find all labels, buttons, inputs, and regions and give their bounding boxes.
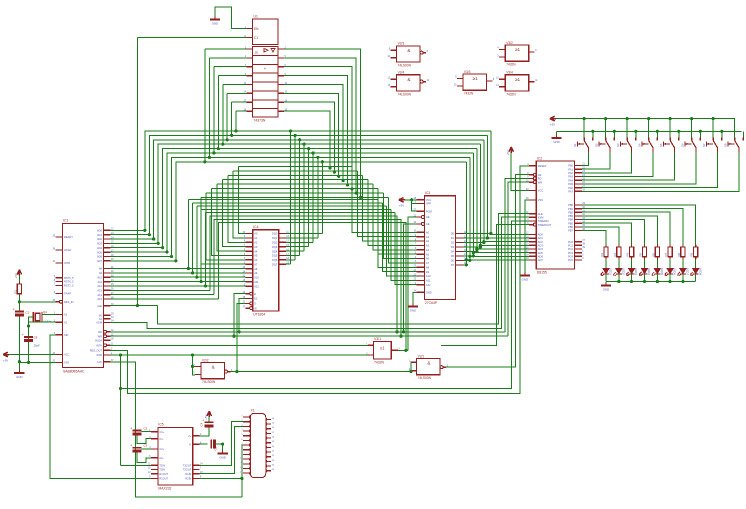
svg-text:A12: A12 [97,284,102,288]
svg-text:+: + [130,444,132,448]
svg-text:AD0: AD0 [538,233,544,237]
svg-text:V3/4: V3/4 [506,71,513,75]
svg-text:VSS: VSS [64,361,69,365]
svg-text:C2+: C2+ [159,447,164,451]
svg-text:HLDA: HLDA [95,338,102,342]
svg-text:LED7: LED7 [686,268,690,275]
svg-text:GND: GND [603,288,609,292]
svg-text:&: & [407,77,410,82]
svg-text:AD4: AD4 [97,246,103,250]
svg-text:A9: A9 [254,271,258,275]
svg-text:PB4: PB4 [568,218,573,222]
svg-text:A11: A11 [98,280,103,284]
svg-text:PC0: PC0 [568,240,574,244]
svg-text:S5: S5 [659,143,663,147]
svg-text:TIMEROUT: TIMEROUT [538,223,552,227]
svg-text:TRAP: TRAP [64,292,71,296]
svg-text:READY: READY [64,235,73,239]
svg-text:R9: R9 [690,252,694,256]
svg-text:V-: V- [189,442,192,446]
svg-text:+: + [130,427,132,431]
svg-text:S7: S7 [702,143,706,147]
svg-text:RES_OUT: RES_OUT [90,349,103,353]
svg-text:C4: C4 [200,422,204,426]
svg-text:A6: A6 [426,257,430,261]
svg-text:A14: A14 [97,293,102,297]
svg-text:INTA: INTA [96,344,102,348]
svg-text:C5: C5 [214,446,218,450]
svg-text:V2/4: V2/4 [398,71,405,75]
svg-text:A0: A0 [426,231,430,235]
svg-text:SID: SID [64,333,68,337]
svg-text:Q1: Q1 [43,310,47,314]
svg-text:≥1: ≥1 [515,47,521,52]
svg-text:74LS00N: 74LS00N [202,380,216,384]
svg-text:X2: X2 [64,320,68,324]
svg-text:7432N: 7432N [464,92,474,96]
svg-text:TIMERIN: TIMERIN [538,219,549,223]
svg-text:PB6: PB6 [568,225,573,229]
svg-text:HOLD: HOLD [64,248,71,252]
svg-text:RD: RD [98,330,102,334]
svg-text:A1: A1 [426,235,430,239]
svg-text:7432N: 7432N [506,92,516,96]
svg-text:AD5: AD5 [538,251,544,255]
svg-text:&: & [427,361,430,366]
svg-text:IC2: IC2 [537,157,542,161]
svg-text:PB2: PB2 [568,210,573,214]
svg-text:A4: A4 [426,248,430,252]
svg-text:+5V: +5V [550,122,555,126]
svg-text:A3: A3 [254,245,258,249]
svg-text:DQ4: DQ4 [272,249,278,253]
svg-text:AD1: AD1 [538,236,544,240]
svg-text:74LS00N: 74LS00N [398,92,412,96]
svg-text:PA5: PA5 [568,182,573,186]
svg-text:A11: A11 [254,280,259,284]
svg-text:R7: R7 [664,252,668,256]
svg-text:LED2: LED2 [621,268,625,275]
svg-text:20pF: 20pF [34,344,41,348]
svg-text:V2/3: V2/3 [398,42,405,46]
svg-text:LED4: LED4 [647,268,651,275]
svg-text:C2: C2 [144,427,148,431]
svg-text:AD2: AD2 [538,240,544,244]
svg-text:DQ5: DQ5 [272,254,278,258]
svg-text:&: & [407,48,410,53]
svg-text:≥1: ≥1 [473,76,479,81]
svg-text:+5V: +5V [506,150,510,155]
svg-text:LED5: LED5 [660,268,664,275]
svg-text:LED3: LED3 [634,268,638,275]
svg-text:A7: A7 [254,262,258,266]
svg-text:X1: X1 [64,313,68,317]
svg-text:DQ3: DQ3 [272,245,278,249]
svg-text:+: + [12,308,14,312]
svg-text:C8: C8 [34,336,38,340]
svg-text:AD1: AD1 [97,233,103,237]
svg-text:S3: S3 [616,143,620,147]
svg-text:PC5: PC5 [568,258,574,262]
svg-text:A8: A8 [426,266,430,270]
svg-text:R2IN: R2IN [185,477,191,481]
svg-text:PA7: PA7 [568,190,573,194]
svg-text:RST7_5: RST7_5 [64,284,74,288]
svg-text:+: + [22,333,24,337]
svg-text:+5V: +5V [3,358,8,362]
svg-text:R3: R3 [613,252,617,256]
svg-text:IC4: IC4 [253,225,258,229]
svg-text:A1: A1 [254,236,258,240]
svg-text:S0: S0 [99,314,103,318]
svg-text:V2/1: V2/1 [418,354,425,358]
svg-text:R4: R4 [626,252,630,256]
svg-text:V3/1: V3/1 [374,337,381,341]
svg-text:C2-: C2- [159,456,163,460]
svg-text:A11: A11 [426,279,431,283]
svg-text:S1: S1 [573,143,577,147]
svg-text:74LS00N: 74LS00N [418,376,432,380]
svg-text:A5: A5 [254,254,258,258]
svg-text:G: G [254,302,256,306]
svg-text:SOD: SOD [96,353,102,357]
svg-text:PB5: PB5 [568,221,573,225]
svg-text:PA2: PA2 [568,171,573,175]
svg-text:R6: R6 [651,252,655,256]
svg-text:GND: GND [410,309,416,313]
svg-text:PA3: PA3 [568,175,573,179]
svg-text:GND: GND [426,291,432,295]
svg-text:D7: D7 [451,263,455,267]
svg-text:CE: CE [538,173,542,177]
svg-text:LED1: LED1 [609,268,613,275]
svg-text:CE: CE [426,222,430,226]
svg-text:7432N: 7432N [374,361,385,365]
svg-text:A10: A10 [426,274,431,278]
svg-text:A13: A13 [97,289,102,293]
svg-text:A12: A12 [254,284,259,288]
svg-text:AD4: AD4 [538,247,544,251]
svg-text:X1: X1 [251,409,255,413]
svg-text:74373N: 74373N [254,119,266,123]
svg-text:VCC: VCC [64,353,70,357]
svg-text:A6: A6 [254,258,258,262]
svg-text:RST5_5: RST5_5 [64,276,74,280]
svg-text:PB7: PB7 [568,229,573,233]
svg-text:D0: D0 [451,232,455,236]
svg-text:PB1: PB1 [568,207,573,211]
svg-text:D3: D3 [451,245,455,249]
svg-text:DQ0: DQ0 [272,232,278,236]
svg-text:WR: WR [538,180,542,184]
svg-text:R2OUT: R2OUT [159,477,168,481]
svg-text:AD3: AD3 [538,244,544,248]
svg-text:A9: A9 [426,270,430,274]
svg-text:CLK: CLK [97,360,102,364]
svg-text:V+: V+ [188,434,192,438]
svg-text:VSS: VSS [538,198,543,202]
svg-text:GND: GND [219,456,225,460]
svg-text:C1: C1 [254,36,258,40]
svg-text:LED6: LED6 [673,268,677,275]
svg-text:+5V: +5V [204,415,208,420]
svg-text:DQ1: DQ1 [272,236,278,240]
svg-text:GND: GND [553,140,559,144]
svg-text:A12: A12 [426,283,431,287]
svg-text:T1OUT: T1OUT [183,464,192,468]
svg-text:R5: R5 [639,252,643,256]
svg-text:E2: E2 [254,297,258,301]
svg-text:VCC: VCC [426,198,432,202]
svg-text:+5V: +5V [399,204,404,208]
svg-text:D6: D6 [451,259,455,263]
svg-text:LED8: LED8 [698,268,702,275]
svg-text:DQ2: DQ2 [272,241,278,245]
svg-text:ALE: ALE [97,304,102,308]
svg-text:A5: A5 [426,252,430,256]
svg-text:T2IN: T2IN [159,468,165,472]
svg-text:A15: A15 [97,297,102,301]
svg-text:RES_IN: RES_IN [64,300,73,304]
svg-text:GND: GND [212,22,218,26]
svg-text:R1IN: R1IN [185,472,191,476]
svg-text:SAB8085AHC: SAB8085AHC [63,369,85,373]
svg-text:C1+: C1+ [159,430,164,434]
svg-text:PA0: PA0 [568,164,573,168]
svg-text:MAX232: MAX232 [158,487,171,491]
svg-text:PB3: PB3 [568,214,573,218]
svg-text:PC3: PC3 [568,251,574,255]
svg-text:AD7: AD7 [538,258,544,262]
svg-text:INTR: INTR [64,261,70,265]
svg-text:27C64P: 27C64P [425,301,438,305]
svg-text:&: & [212,365,215,370]
svg-text:AD7: AD7 [97,259,103,263]
svg-text:AD6: AD6 [538,255,544,259]
svg-text:≥1: ≥1 [515,77,521,82]
svg-text:C1: C1 [26,311,30,315]
svg-text:PA6: PA6 [568,186,573,190]
svg-text:T1IN: T1IN [159,464,165,468]
svg-text:V2/2: V2/2 [202,358,209,362]
svg-text:R1OUT: R1OUT [159,472,168,476]
svg-text:C1-: C1- [159,437,163,441]
svg-text:74LS00N: 74LS00N [398,64,412,68]
svg-text:D5: D5 [451,254,455,258]
svg-text:OE: OE [426,215,430,219]
svg-text:RD: RD [538,177,542,181]
svg-text:PB0: PB0 [568,203,573,207]
svg-text:PGM: PGM [426,209,432,213]
svg-text:V3/2: V3/2 [506,41,513,45]
svg-text:R8: R8 [677,252,681,256]
svg-text:E: E [254,292,256,296]
svg-text:S8: S8 [724,143,728,147]
svg-text:VCC: VCC [538,189,544,193]
svg-text:R2: R2 [600,252,604,256]
svg-text:IO/M: IO/M [538,215,544,219]
svg-text:AD2: AD2 [97,237,103,241]
svg-text:V3/3: V3/3 [464,70,471,74]
svg-text:AD3: AD3 [97,242,103,246]
svg-text:GND: GND [16,375,22,379]
svg-text:PA1: PA1 [568,167,573,171]
svg-text:A2: A2 [426,239,430,243]
svg-text:PA4: PA4 [568,178,573,182]
svg-text:D8155: D8155 [537,270,547,274]
svg-text:+5V: +5V [14,273,18,278]
svg-text:A2: A2 [254,241,258,245]
svg-text:PC2: PC2 [568,247,574,251]
svg-text:+: + [202,418,204,422]
svg-text:DQ6: DQ6 [272,258,278,262]
svg-text:S6: S6 [681,143,685,147]
svg-text:IC1: IC1 [63,219,68,223]
svg-text:PC4: PC4 [568,254,574,258]
svg-text:A8: A8 [99,267,103,271]
svg-text:RST6_5: RST6_5 [64,280,74,284]
svg-text:AD6: AD6 [97,255,103,259]
svg-text:A9: A9 [99,271,103,275]
svg-text:AD5: AD5 [97,250,103,254]
svg-text:IC3: IC3 [425,191,430,195]
svg-text:A3: A3 [426,244,430,248]
svg-text:GND: GND [522,278,528,282]
svg-text:IC5: IC5 [158,423,163,427]
svg-text:IO/M: IO/M [96,321,102,325]
svg-text:S2: S2 [595,143,599,147]
svg-text:A10: A10 [97,275,102,279]
svg-text:D2: D2 [451,241,455,245]
svg-text:A0: A0 [254,232,258,236]
svg-text:A8: A8 [254,267,258,271]
svg-text:≥1: ≥1 [380,345,385,350]
svg-text:T2OUT: T2OUT [183,468,192,472]
svg-text:D1: D1 [451,236,455,240]
svg-text:ALE: ALE [538,212,543,216]
svg-text:A7: A7 [426,261,430,265]
svg-text:UT6264: UT6264 [253,313,265,317]
svg-text:AD0: AD0 [97,229,103,233]
svg-text:S1: S1 [99,317,103,321]
svg-text:D4: D4 [451,250,455,254]
svg-text:A4: A4 [254,249,258,253]
svg-text:4 MHz: 4 MHz [43,320,52,324]
svg-text:S4: S4 [638,143,642,147]
svg-text:DQ7: DQ7 [272,262,278,266]
svg-text:U1: U1 [254,15,258,19]
svg-text:RESET: RESET [538,164,547,168]
svg-text:A10: A10 [254,276,259,280]
svg-text:C3: C3 [144,444,148,448]
svg-text:VPP: VPP [426,202,431,206]
svg-text:PC1: PC1 [568,244,574,248]
svg-text:R1: R1 [13,289,17,293]
svg-text:WR: WR [98,334,102,338]
svg-text:EN: EN [254,27,259,31]
svg-text:7432N: 7432N [506,63,516,67]
